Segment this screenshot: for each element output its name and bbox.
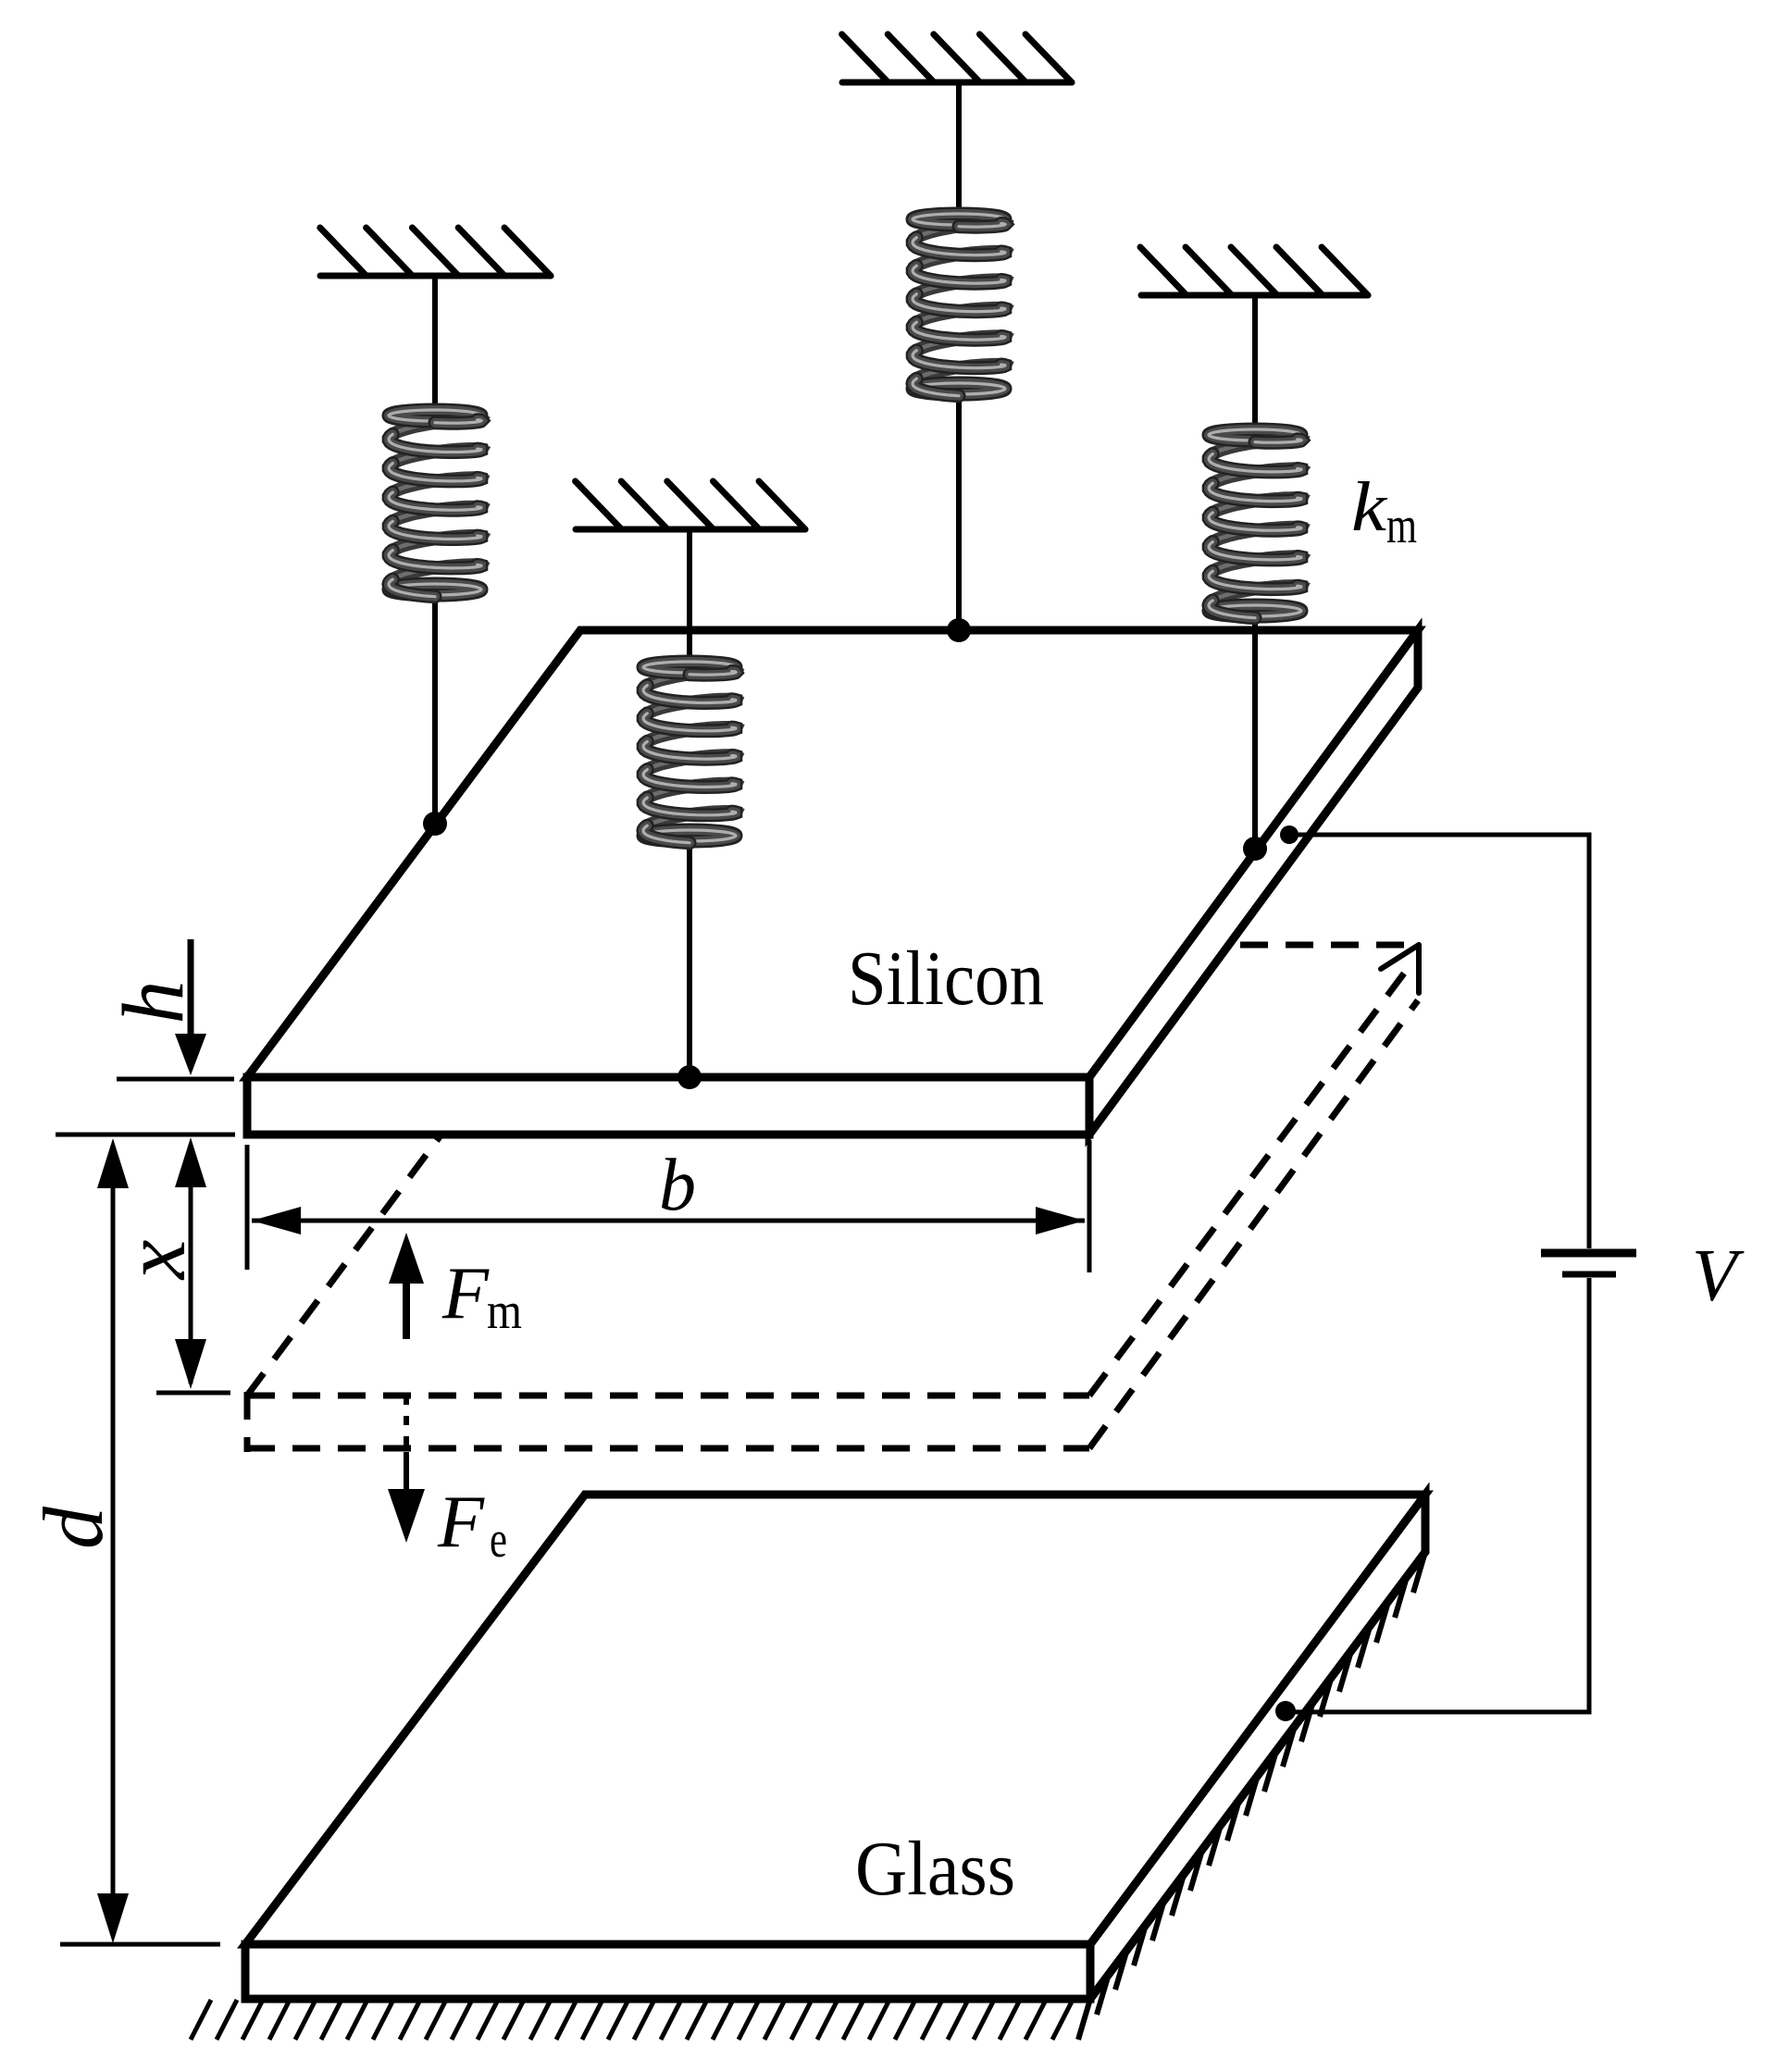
dimension x bottom tick [156,1391,230,1396]
node spring S3 attach [947,618,971,642]
svg-text:V: V [1692,1235,1745,1317]
node spring S1 attach [423,812,447,836]
node spring S4 attach [1243,837,1267,861]
spring S1 (k_m coil) [389,410,481,597]
dimension x double arrow [189,1148,193,1383]
dimension b extension lines [245,1145,250,1270]
svg-text:m: m [1386,497,1417,554]
displaced silicon plate (dashed outline) [247,945,1418,1452]
dimension d bottom tick [60,1942,220,1947]
svg-text:F: F [441,1253,490,1334]
ground hatching below glass plate [191,2000,1073,2040]
svg-text:Glass: Glass [855,1826,1015,1912]
spring S3 (k_m coil) [913,214,1005,396]
fixed support anchor A2 (front) (hatched wall) [576,481,805,529]
dimension h arrow (plate thickness) [188,939,194,1036]
wire rod from spring S2 to silicon plate node [687,844,692,1077]
fixed support anchor A3 (top) (hatched wall) [842,34,1072,82]
force arrow F_m (upward) [389,1233,424,1339]
svg-text:d: d [26,1506,120,1549]
wire from battery to glass plate [1286,1278,1589,1712]
wire rod from spring S4 to silicon plate node [1252,619,1258,849]
dimension d double arrow [111,1148,116,1934]
node top electrode terminal [1280,825,1299,844]
svg-text:h: h [106,981,202,1024]
battery V positive plate [1541,1249,1636,1258]
wire rod from spring S3 to silicon plate node [956,397,962,630]
silicon plate right side face [1089,630,1418,1135]
wire rod from anchor A3 to spring S3 [956,82,962,211]
battery V negative plate [1562,1272,1616,1278]
wire rod from spring S1 to silicon plate node [432,598,438,824]
node spring S2 attach [677,1065,702,1089]
svg-text:e: e [490,1511,507,1569]
svg-text:Silicon: Silicon [848,936,1044,1022]
glass plate front face [245,1944,1090,1999]
spring S2 (k_m coil) [643,662,736,843]
wire rod from anchor A2 to spring S2 [687,529,692,659]
fixed-wall hatching along glass right edge [1078,1552,1425,2040]
glass plate top face [245,1495,1425,1944]
svg-text:x: x [105,1240,204,1282]
displacement arrowhead at dashed plate corner [1381,945,1419,993]
dimension h tick lines [117,1077,234,1082]
spring S4 (k_m coil) [1209,429,1301,618]
wire from silicon plate to battery [1289,835,1589,1248]
svg-text:b: b [659,1145,696,1226]
fixed support anchor A1 (left) (hatched wall) [320,228,551,276]
force arrow F_e (downward, dotted) [388,1396,425,1543]
silicon plate front face [247,1077,1089,1135]
node bottom electrode terminal [1275,1701,1296,1721]
silicon plate top face [247,630,1418,1077]
svg-text:m: m [487,1283,522,1340]
svg-text:k: k [1351,468,1387,546]
svg-text:F: F [437,1482,485,1563]
wire rod from anchor A1 to spring S1 [432,276,438,407]
wire rod from anchor A4 to spring S4 [1252,295,1258,427]
glass plate right side face [1090,1495,1425,1999]
fixed support anchor A4 (right) (hatched wall) [1140,247,1368,295]
dimension b arrow line [252,1219,1085,1223]
